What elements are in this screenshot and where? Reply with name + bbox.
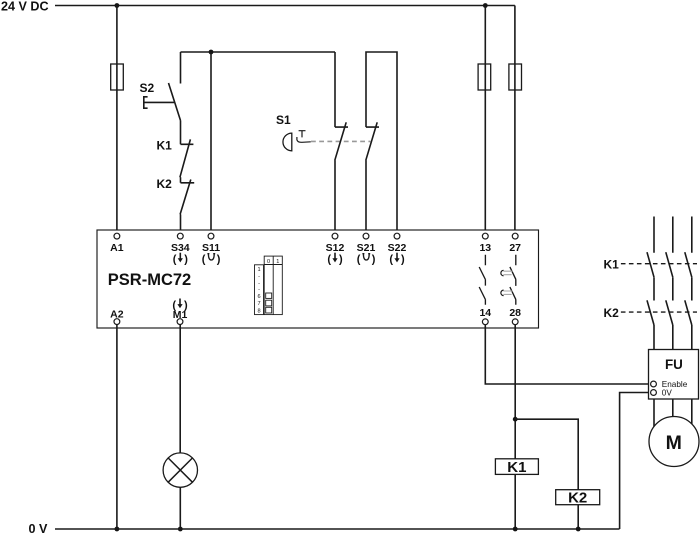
svg-text:K2: K2 xyxy=(604,306,620,320)
pushbutton S2 contact (NO) xyxy=(169,52,181,144)
svg-text:): ) xyxy=(184,254,188,266)
svg-text:(: ( xyxy=(202,254,206,266)
svg-text:27: 27 xyxy=(509,242,521,254)
svg-text:K1: K1 xyxy=(157,139,173,153)
frequency inverter FU body xyxy=(649,350,699,400)
svg-text:S2: S2 xyxy=(140,81,155,95)
junction A2 / 0V rail xyxy=(115,527,120,532)
wire 14 to FU Enable xyxy=(485,325,650,384)
terminal 27 xyxy=(509,233,521,254)
svg-text:FU: FU xyxy=(665,357,683,372)
terminal S34 xyxy=(171,233,190,266)
mechanical link K1 (dashed) xyxy=(621,263,697,265)
FU pin 0V xyxy=(651,388,673,397)
svg-text:PSR-MC72: PSR-MC72 xyxy=(108,271,191,289)
svg-text:): ) xyxy=(401,254,405,266)
svg-text:0: 0 xyxy=(267,259,270,265)
motor M xyxy=(649,417,699,467)
svg-text:): ) xyxy=(372,254,376,266)
terminal S12 xyxy=(326,233,345,266)
terminal 13 xyxy=(479,233,491,254)
forced-guidance fork lower (27 path) xyxy=(501,290,513,296)
junction 24V rail / contact 13 drop xyxy=(483,3,488,8)
wire K2 branch xyxy=(515,419,578,529)
svg-text:28: 28 xyxy=(509,307,521,319)
junction lamp / 0V rail xyxy=(178,527,183,532)
wire 0V rail xyxy=(55,528,620,530)
svg-text:): ) xyxy=(339,254,343,266)
mechanical link S1 (dashed) xyxy=(311,140,370,142)
fuse F2 xyxy=(478,64,491,90)
emergency stop S1 actuator (mushroom head) xyxy=(283,133,292,151)
wire contact-27 supply drop xyxy=(514,6,516,234)
svg-text:(: ( xyxy=(327,254,331,266)
DIP switch block xyxy=(255,256,283,315)
terminal 28 xyxy=(509,307,521,325)
svg-text:S11: S11 xyxy=(202,242,220,254)
terminal A2 xyxy=(110,309,124,325)
svg-text:A1: A1 xyxy=(110,242,124,254)
svg-text:K2: K2 xyxy=(568,490,587,507)
wire FU to motor (3 feeds) xyxy=(654,399,692,427)
terminal A1 xyxy=(110,233,124,254)
wire lamp to 0V rail xyxy=(179,487,181,529)
safety contact 13-14 (two NO in series) xyxy=(479,255,485,305)
svg-text:24 V DC: 24 V DC xyxy=(1,0,49,14)
safety contact 27-28 (two NO in series) xyxy=(510,255,516,305)
wire reset line (top of S2 branch to S12 branch) xyxy=(181,51,336,53)
wire S21-S22 loop xyxy=(366,52,397,233)
wire 28 through coil K1 to 0V rail xyxy=(514,325,516,529)
mechanical link K2 (dashed) xyxy=(621,311,697,313)
svg-text:S12: S12 xyxy=(326,242,345,254)
wire A2 to 0V rail xyxy=(116,325,118,530)
fuse F1 xyxy=(111,64,124,90)
junction K1 wire / 0V rail xyxy=(513,527,518,532)
wire 0V rail to FU 0V pin xyxy=(620,393,651,530)
svg-text:6: 6 xyxy=(257,294,260,300)
wire 24V supply rail xyxy=(55,5,515,7)
svg-text:13: 13 xyxy=(479,242,491,254)
relay PSR-MC72 body xyxy=(97,230,539,328)
svg-text:14: 14 xyxy=(479,307,491,319)
svg-text:S22: S22 xyxy=(388,242,407,254)
indicator lamp P1 xyxy=(163,453,197,487)
fuse F3 xyxy=(509,64,522,90)
junction 28 wire / K2 branch xyxy=(513,417,518,422)
wire phase L2 xyxy=(672,217,674,350)
svg-text:K1: K1 xyxy=(507,459,526,476)
svg-text:0V: 0V xyxy=(662,388,673,397)
forced-guidance fork upper (27 path) xyxy=(501,270,513,276)
terminal M1 xyxy=(172,299,188,325)
svg-text:): ) xyxy=(217,254,221,266)
pushbutton S2 actuator xyxy=(144,97,174,108)
svg-text:S21: S21 xyxy=(357,242,376,254)
svg-text:A2: A2 xyxy=(110,309,124,321)
junction 24V rail / A1 drop xyxy=(115,3,120,8)
svg-text:-: - xyxy=(258,280,260,286)
wire phase L3 xyxy=(691,217,693,350)
contactor coil K1 xyxy=(495,459,538,476)
svg-text:-: - xyxy=(258,274,260,280)
contactor coil K2 xyxy=(556,490,600,507)
svg-text:K1: K1 xyxy=(604,258,620,272)
svg-text:-: - xyxy=(258,287,260,293)
emergency stop S1 latch symbol xyxy=(297,131,311,143)
wire S11 drop xyxy=(210,52,212,233)
contact S1.2 (NC, S21 leg) xyxy=(366,122,379,233)
terminal S21 xyxy=(357,233,376,266)
terminal 14 xyxy=(479,307,491,325)
FU pin Enable xyxy=(651,380,688,389)
contactor K2 main contacts (3x NO) xyxy=(647,300,692,325)
junction K2 wire / 0V rail xyxy=(576,527,581,532)
terminal S11 xyxy=(202,233,221,266)
svg-text:0 V: 0 V xyxy=(29,522,49,534)
svg-text:1: 1 xyxy=(276,259,279,265)
svg-text:M1: M1 xyxy=(173,309,188,321)
contact K2 (NC) xyxy=(180,180,194,234)
wire A1 supply drop xyxy=(116,6,118,234)
contactor K1 main contacts (3x NO) xyxy=(647,252,692,277)
svg-text:8: 8 xyxy=(257,308,260,314)
svg-text:S34: S34 xyxy=(171,242,190,254)
wire M1 to lamp xyxy=(179,325,181,453)
svg-text:7: 7 xyxy=(257,301,260,307)
svg-text:S1: S1 xyxy=(276,113,291,127)
svg-text:1: 1 xyxy=(257,267,260,273)
svg-text:M: M xyxy=(666,432,682,454)
contact K1 (NC) xyxy=(180,139,194,182)
junction reset line / S11 drop xyxy=(209,50,214,55)
wire phase L1 xyxy=(653,217,655,350)
svg-text:K2: K2 xyxy=(157,177,173,191)
svg-text:(: ( xyxy=(389,254,393,266)
svg-text:(: ( xyxy=(173,254,177,266)
wire contact-13 supply drop xyxy=(484,6,486,234)
contact S1.1 (NC, S12 leg) xyxy=(335,52,348,233)
svg-text:(: ( xyxy=(357,254,361,266)
terminal S22 xyxy=(388,233,407,266)
